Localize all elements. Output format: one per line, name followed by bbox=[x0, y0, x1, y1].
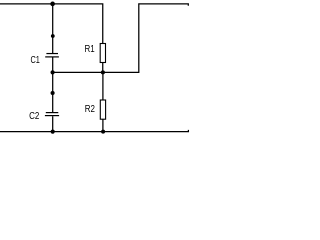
resistor R1 bbox=[100, 44, 105, 63]
svg-text:C2: C2 bbox=[29, 111, 40, 122]
node junction R1 / R2 / middle wire bbox=[101, 70, 105, 74]
wire left branch lower segment bbox=[52, 116, 54, 131]
node junction bottom wire / C2 branch bbox=[51, 130, 55, 134]
node junction bottom wire / R2 branch bbox=[101, 130, 105, 134]
wire bottom horizontal with end stub up bbox=[0, 130, 188, 132]
wire R1 bottom lead bbox=[102, 63, 104, 73]
node on C1 branch upper bbox=[51, 34, 55, 38]
node junction top wire / C1 branch bbox=[50, 2, 55, 7]
wire R2 bottom lead bbox=[102, 119, 104, 131]
resistor R2 bbox=[100, 100, 105, 119]
node on C2 branch upper bbox=[51, 91, 55, 95]
svg-text:R1: R1 bbox=[85, 44, 96, 55]
wire middle horizontal, up right side, top-right horizontal with end stub bbox=[53, 4, 189, 73]
wire left branch middle segment bbox=[52, 58, 54, 113]
node junction C branch / middle wire bbox=[51, 70, 55, 74]
svg-text:C1: C1 bbox=[31, 55, 41, 66]
capacitor C2 bbox=[45, 113, 59, 116]
wire R2 top lead bbox=[102, 72, 104, 100]
capacitor C1 bbox=[45, 54, 59, 57]
wire top-left horizontal with bend down to R1 bbox=[0, 4, 103, 44]
svg-text:R2: R2 bbox=[85, 104, 96, 115]
wire left branch upper segment bbox=[52, 4, 54, 53]
